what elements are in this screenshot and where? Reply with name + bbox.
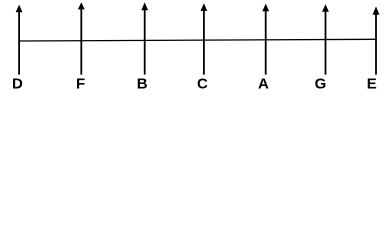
arrow G (322, 4, 329, 74)
svg-text:B: B (137, 76, 148, 93)
arrow F (78, 2, 85, 74)
svg-text:D: D (12, 76, 23, 93)
svg-text:E: E (367, 76, 377, 93)
svg-text:C: C (197, 76, 208, 93)
arrow E (373, 6, 380, 74)
arrow A (262, 4, 269, 75)
arrow B (141, 2, 148, 74)
arrow D (16, 5, 23, 75)
svg-text:F: F (76, 76, 85, 93)
arrow C (201, 3, 208, 74)
horizontal line (19, 39, 376, 41)
svg-text:A: A (258, 76, 269, 93)
svg-text:G: G (315, 76, 327, 93)
